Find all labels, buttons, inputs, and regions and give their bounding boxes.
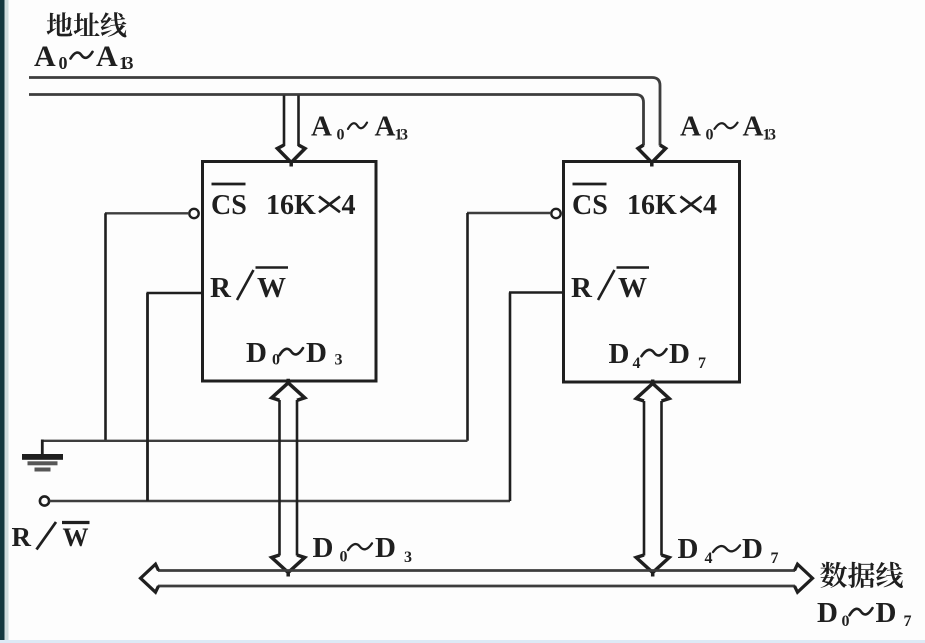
label D4~D7 (bus): [678, 533, 779, 567]
svg-text:D: D: [246, 337, 267, 369]
svg-text:4: 4: [705, 550, 713, 567]
svg-text:D: D: [609, 338, 630, 370]
arrowhead down to data bus (U1): [272, 555, 305, 577]
svg-text:D: D: [817, 597, 838, 629]
data bus shaft chip U1 (D0~D3): [278, 400, 281, 556]
bus tap wires into left chip: [283, 96, 286, 147]
label A0~A13 (right tap): [680, 111, 776, 144]
svg-text:3: 3: [335, 352, 343, 369]
svg-text:D: D: [313, 532, 334, 564]
left dark edge strip: [0, 0, 5, 643]
memory chip U2 16Kx4 (right) box: [564, 162, 740, 383]
wire CS2 vertical drop: [466, 213, 469, 441]
data bus left arrowhead: [141, 564, 159, 592]
arrowhead up into chip U2: [636, 380, 669, 402]
svg-text:D: D: [669, 338, 690, 370]
svg-text:4: 4: [633, 355, 641, 372]
svg-text:W: W: [257, 272, 286, 304]
wire R/W chip1 horizontal: [147, 292, 203, 295]
chip U2 CS inverter bubble: [551, 209, 560, 218]
svg-text:D: D: [375, 532, 396, 564]
chip U2 pin label CS (overline): [572, 190, 608, 221]
svg-text:A: A: [375, 111, 396, 143]
svg-text:R: R: [12, 522, 32, 552]
data bus right arrowhead: [795, 564, 813, 592]
chip U1 CS inverter bubble: [189, 209, 198, 218]
bottom light blue strip: [0, 640, 925, 643]
svg-text:4: 4: [703, 190, 717, 221]
svg-text:16K: 16K: [266, 190, 316, 221]
wire R/W chip1 vertical: [146, 293, 149, 501]
wire CS1 vertical drop: [104, 213, 107, 440]
svg-text:A: A: [743, 111, 764, 143]
label data-bus "数据线": [820, 562, 903, 588]
chip U1 pin label CS (active low, overline): [211, 190, 247, 221]
svg-text:3: 3: [404, 549, 412, 566]
chip U2 label 16K x 4: [627, 190, 717, 221]
svg-text:4: 4: [342, 190, 356, 221]
svg-text:0: 0: [340, 549, 348, 566]
data bus shaft chip U2 (D4~D7): [643, 401, 646, 556]
svg-text:D: D: [876, 597, 897, 629]
svg-text:A: A: [311, 111, 332, 143]
wire CS2 horizontal: [467, 212, 551, 214]
data bus bottom line: [158, 585, 795, 588]
label D0~D3 (bus): [313, 532, 413, 566]
svg-text:16K: 16K: [627, 190, 677, 221]
label A0~A13 (left tap): [311, 111, 408, 144]
chip U2 pin label D4~D7: [609, 338, 707, 372]
svg-text:R: R: [571, 272, 593, 304]
data bus top line: [158, 569, 795, 572]
svg-text:A: A: [680, 111, 701, 143]
ground bus horizontal wire: [42, 440, 467, 442]
svg-text:3: 3: [125, 53, 134, 73]
wire CS1 horizontal: [105, 212, 189, 214]
ground stem: [41, 440, 44, 456]
chip U1 label 16K x 4: [266, 190, 356, 221]
arrowhead into right chip (address): [638, 145, 666, 167]
svg-text:CS: CS: [211, 190, 247, 221]
svg-text:A: A: [96, 40, 118, 73]
label R/W (input, W overline): [12, 522, 32, 552]
svg-text:0: 0: [59, 53, 68, 73]
svg-text:3: 3: [768, 127, 776, 144]
label A0~A13 (top left): [34, 40, 134, 73]
chip U1 pin label R/W (W overline): [210, 272, 232, 304]
svg-text:CS: CS: [572, 190, 608, 221]
label D0~D7 (bottom right): [817, 597, 912, 630]
address bus top line (turns down at right into right chip arrow): [29, 78, 660, 146]
arrowhead down to data bus (U2): [636, 555, 669, 577]
memory chip U1 16Kx4 (left) box: [203, 162, 377, 382]
address bus bottom line (turns down at x=643): [29, 95, 644, 146]
svg-text:3: 3: [400, 127, 408, 144]
svg-text:7: 7: [771, 550, 779, 567]
svg-text:W: W: [618, 272, 647, 304]
svg-text:7: 7: [904, 613, 912, 630]
svg-text:D: D: [306, 337, 327, 369]
wire R/W chip2 vertical: [509, 293, 512, 502]
svg-text:0: 0: [706, 127, 714, 144]
label address-bus "地址线": [47, 12, 127, 37]
svg-text:W: W: [63, 523, 89, 552]
arrowhead into left chip (address): [277, 145, 305, 167]
svg-text:R: R: [210, 272, 232, 304]
svg-text:0: 0: [337, 127, 345, 144]
chip U2 pin label R/W (W overline): [571, 272, 593, 304]
svg-text:7: 7: [698, 355, 706, 372]
R/W input terminal circle: [40, 496, 49, 505]
ground symbol: [22, 454, 63, 472]
arrowhead up into chip U1: [272, 379, 305, 401]
svg-text:A: A: [34, 40, 56, 73]
svg-text:D: D: [678, 533, 699, 565]
R/W horizontal wire: [50, 500, 511, 502]
wire R/W chip2 horizontal: [509, 291, 563, 294]
chip U1 pin label D0~D3: [246, 337, 343, 369]
svg-text:D: D: [742, 533, 763, 565]
